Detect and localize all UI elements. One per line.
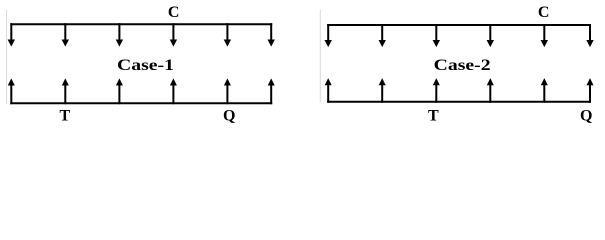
svg-text:C: C: [538, 4, 550, 21]
svg-text:C: C: [168, 4, 180, 21]
down arrow 3 (Case-1): [116, 23, 123, 46]
svg-text:Q: Q: [223, 108, 235, 125]
up arrow 1 (Case-1): [8, 78, 15, 104]
bottom chord line (Case-2): [327, 101, 591, 103]
down arrow 3 (Case-2): [433, 24, 440, 47]
down arrow 4 (Case-2): [487, 24, 494, 47]
down arrow 2 (Case-1): [62, 23, 69, 46]
down arrow 1 (Case-1): [8, 23, 15, 46]
svg-text:T: T: [59, 108, 70, 125]
up arrow 3 (Case-2): [433, 78, 440, 103]
svg-text:Q: Q: [580, 108, 592, 125]
top chord line (Case-2): [327, 24, 591, 26]
up arrow 4 (Case-2): [487, 78, 494, 103]
top chord line (Case-1): [10, 23, 272, 25]
bottom chord line (Case-1): [10, 102, 272, 104]
up arrow 6 (Case-2): [587, 78, 594, 103]
right panel faint border: [319, 10, 321, 103]
down arrow 5 (Case-1): [224, 23, 231, 46]
svg-text:Case-2: Case-2: [434, 57, 491, 74]
up arrow 1 (Case-2): [325, 78, 332, 103]
down arrow 4 (Case-1): [170, 23, 177, 46]
left panel faint border: [6, 10, 8, 104]
svg-text:T: T: [428, 108, 439, 125]
up arrow 4 (Case-1): [170, 78, 177, 104]
svg-text:Case-1: Case-1: [117, 57, 174, 74]
up arrow 5 (Case-1): [224, 78, 231, 104]
up arrow 2 (Case-2): [379, 78, 386, 103]
up arrow 2 (Case-1): [62, 78, 69, 104]
down arrow 6 (Case-2): [586, 24, 593, 47]
down arrow 5 (Case-2): [541, 24, 548, 47]
down arrow 2 (Case-2): [379, 24, 386, 47]
down arrow 1 (Case-2): [325, 24, 332, 47]
up arrow 5 (Case-2): [541, 78, 548, 103]
up arrow 3 (Case-1): [116, 78, 123, 104]
up arrow 6 (Case-1): [268, 78, 275, 104]
down arrow 6 (Case-1): [268, 23, 275, 46]
